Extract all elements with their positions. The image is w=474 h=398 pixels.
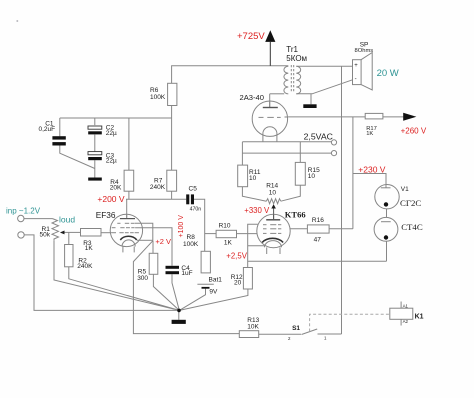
relay K1 pin A2 <box>400 319 402 325</box>
tube KT66 <box>257 214 290 254</box>
wire +2V diagonal to R13 branch <box>133 241 239 334</box>
wire R11 bottom to R14 <box>242 187 266 202</box>
potentiometer R14 wiper arrow <box>271 204 276 208</box>
wire +230V tap to V1 <box>353 174 386 188</box>
svg-text:1: 1 <box>324 336 327 341</box>
svg-text:+200 V: +200 V <box>97 194 125 204</box>
svg-text:1K: 1K <box>224 240 233 247</box>
resistor R13 <box>239 331 258 338</box>
svg-text:A2: A2 <box>403 319 409 324</box>
resistor R12 <box>243 268 252 290</box>
wire R1 wiper to R3 <box>65 231 81 233</box>
wire Bat1 bottom to star <box>179 289 205 311</box>
wire R7 bottom lead <box>171 191 173 199</box>
svg-text:+230 V: +230 V <box>358 165 386 175</box>
svg-text:KT66: KT66 <box>285 209 306 219</box>
svg-text:50k: 50k <box>40 231 51 238</box>
wire R17 to arrow <box>383 116 404 118</box>
wire S1 pin1 to right bus <box>318 333 342 335</box>
wire R15 top lead <box>299 142 301 163</box>
svg-text:C5: C5 <box>189 186 198 193</box>
wire 2.5VAC lower line <box>242 152 331 154</box>
resistor R4 <box>124 170 134 191</box>
svg-text:+330 V: +330 V <box>244 206 270 215</box>
resistor R16 <box>307 225 329 233</box>
2A3 plate <box>263 107 278 109</box>
wire 2A3 filament line <box>242 141 331 143</box>
input terminal upper <box>18 215 24 221</box>
svg-text:+2 V: +2 V <box>155 237 171 246</box>
svg-text:+2,5V: +2,5V <box>226 252 247 261</box>
svg-text:EF36: EF36 <box>96 210 116 220</box>
svg-text:1uF: 1uF <box>181 270 192 277</box>
ground bar below C3 <box>88 178 102 181</box>
KT66 grid rows <box>263 225 281 234</box>
wire R12 bottom to star <box>179 289 248 310</box>
svg-text:22µ: 22µ <box>106 157 117 164</box>
svg-text:+100 V: +100 V <box>178 215 185 238</box>
KT66 plate <box>266 219 280 221</box>
svg-text:10: 10 <box>249 175 257 182</box>
EF36 cathode <box>120 236 136 240</box>
wire R1 bottom to star <box>54 240 179 310</box>
svg-text:Tr1: Tr1 <box>286 45 298 54</box>
svg-text:1K: 1K <box>366 131 373 137</box>
relay K1 pin A1 <box>400 302 402 309</box>
EF36 grid rows <box>112 223 139 232</box>
wire secondary bottom to ground <box>310 94 312 105</box>
wire +725V rail top <box>172 66 289 84</box>
speck artifact <box>16 20 18 22</box>
wire C4 bottom to star <box>172 274 179 310</box>
svg-text:СТ4С: СТ4С <box>401 222 423 232</box>
wire EF36 g1 to R3 <box>101 232 112 234</box>
wire EF36 g3 +2V node <box>135 223 153 241</box>
svg-text:+725V: +725V <box>237 31 265 42</box>
svg-text:20K: 20K <box>110 185 122 192</box>
wire EF36 cathode to +2V node <box>137 239 153 241</box>
wire star to ground <box>178 310 180 319</box>
wire R4 bottom lead <box>128 191 130 199</box>
relay K1 coil <box>390 308 413 319</box>
wire input upper to R1 <box>24 218 53 220</box>
switch S1 blade <box>302 329 318 335</box>
svg-text:0,2uF: 0,2uF <box>39 126 56 133</box>
potentiometer R1 wiper arrow <box>60 231 65 235</box>
arrow +260V <box>403 113 416 121</box>
wire V1 to CT4C link <box>386 209 388 218</box>
wire R2 top lead <box>68 232 70 244</box>
wire screen bus x352 vertical <box>352 117 354 229</box>
wire CT4C bottom lead <box>386 241 388 261</box>
resistor R10 <box>216 230 236 237</box>
regulator tube CT4C <box>374 217 398 241</box>
wire C2-C3 link <box>94 135 96 152</box>
wire node +400 horizontal (C1/C2/R4 top rail) <box>60 117 172 119</box>
wire KT66 grid bus vertical <box>248 224 258 267</box>
resistor R2 <box>65 245 73 267</box>
transformer Tr1 primary winding <box>284 66 288 94</box>
wire R11 top lead <box>241 142 243 165</box>
svg-text:СГ2С: СГ2С <box>400 198 421 208</box>
2.5VAC terminal 1 <box>331 140 336 145</box>
capacitor C3 (electrolytic) <box>88 152 102 161</box>
wire R4 top lead <box>128 118 130 170</box>
wire R13 to S1 <box>259 333 301 335</box>
svg-text:240K: 240K <box>77 263 93 270</box>
svg-text:47: 47 <box>314 236 322 243</box>
wire R2 bottom to star <box>69 267 180 311</box>
capacitor C5 <box>186 194 194 204</box>
svg-text:20: 20 <box>234 280 242 287</box>
ground bar transformer secondary <box>303 104 316 108</box>
wire C1 top lead <box>59 118 61 136</box>
svg-text:-: - <box>355 77 357 83</box>
potentiometer R1 zigzag <box>52 219 59 241</box>
2A3 filament <box>263 127 277 134</box>
wire speaker minus diagonal <box>296 80 352 94</box>
svg-text:S1: S1 <box>292 325 300 332</box>
svg-text:10: 10 <box>308 173 316 180</box>
tube 2A3-40 <box>252 101 288 142</box>
wire R10 row (R8 node to KT66 grid) <box>205 233 216 235</box>
wire node +200V horizontal <box>126 198 186 200</box>
capacitor C1 <box>52 136 65 145</box>
resistor R17 <box>365 113 383 119</box>
wire EF36 g2 to C4 <box>135 228 172 266</box>
wire R14 wiper to KT66 plate <box>273 206 275 220</box>
svg-text:300: 300 <box>137 275 148 282</box>
wire secondary top to speaker <box>296 65 352 67</box>
resistor R11 <box>238 165 248 187</box>
speaker SP cone <box>361 53 372 90</box>
wire right bus vertical (speaker to S1) <box>341 66 343 334</box>
svg-text:10K: 10K <box>247 324 259 331</box>
wire R5 bottom to star <box>153 274 179 310</box>
wire C1 bottom lead <box>60 145 95 168</box>
2A3 grid dashes <box>259 116 289 118</box>
svg-text:1K: 1K <box>85 245 94 252</box>
battery Bat1 <box>197 284 213 288</box>
KT66 cathode <box>262 238 283 242</box>
input terminal lower <box>18 232 24 238</box>
svg-text:R10: R10 <box>219 223 231 230</box>
wire KT66 screen to R16 <box>290 228 307 230</box>
svg-text:2,5VAC: 2,5VAC <box>304 132 333 142</box>
svg-text:20 W: 20 W <box>377 68 399 79</box>
node star ground junction <box>177 309 181 313</box>
svg-text:5КОм: 5КОм <box>286 54 307 63</box>
resistor R7 <box>167 170 177 191</box>
ground bar main <box>172 320 186 324</box>
svg-text:100K: 100K <box>183 241 199 248</box>
tube EF36 <box>110 214 142 252</box>
svg-text:8Ohms: 8Ohms <box>355 48 374 54</box>
svg-text:100K: 100K <box>150 94 166 101</box>
svg-text:9V: 9V <box>209 289 218 296</box>
svg-text:240K: 240K <box>150 184 166 191</box>
capacitor C2 (electrolytic) <box>88 126 102 134</box>
svg-text:+: + <box>354 63 358 69</box>
svg-text:+260 V: +260 V <box>401 126 427 135</box>
svg-text:K1: K1 <box>415 314 424 321</box>
svg-text:22µ: 22µ <box>106 130 117 137</box>
wire +2V to R5 <box>152 241 154 254</box>
wire C2 top lead <box>94 118 96 125</box>
wire input lower to star <box>24 235 179 311</box>
transformer Tr1 secondary winding <box>296 66 300 94</box>
svg-text:Bat1: Bat1 <box>209 276 223 283</box>
wire R6 to R7 vertical <box>171 106 173 171</box>
resistor R3 <box>81 229 102 237</box>
svg-text:10: 10 <box>269 189 277 196</box>
EF36 plate <box>120 218 135 220</box>
capacitor C4 <box>166 266 180 274</box>
wire primary bottom <box>270 93 285 95</box>
resistor R8 <box>201 251 210 273</box>
wire R15 bottom to R14 <box>281 185 301 201</box>
2.5VAC terminal 2 <box>331 151 336 156</box>
svg-text:V1: V1 <box>401 186 409 193</box>
resistor R15 <box>295 162 305 185</box>
svg-text:2A3-40: 2A3-40 <box>240 93 265 102</box>
switch S1 link dashed <box>310 314 390 331</box>
potentiometer R14 zigzag <box>266 199 281 204</box>
svg-text:A1: A1 <box>403 304 409 309</box>
transformer Tr1 core <box>291 65 293 93</box>
svg-text:2: 2 <box>288 336 291 341</box>
wire R10 right to grid bus <box>237 233 258 235</box>
wire EF36 plate lead <box>126 199 128 217</box>
svg-text:loud: loud <box>59 214 75 224</box>
wire cathode bus to CT4C bottom <box>248 260 387 262</box>
resistor R6 <box>168 83 177 105</box>
wire +725V arrow stem <box>269 42 271 66</box>
arrow +725V <box>265 30 275 42</box>
speaker SP box <box>353 60 362 85</box>
wire 2A3 grid to R17 line <box>288 116 365 118</box>
wire 2A3 plate lead <box>269 94 271 108</box>
svg-text:470n: 470n <box>190 207 202 213</box>
wire C3 to ground <box>94 160 96 177</box>
regulator tube V1 CT2C <box>375 185 399 209</box>
wire KT66 cathode tap <box>248 245 265 247</box>
wire R16 to screen bus <box>329 228 353 230</box>
svg-text:R16: R16 <box>312 217 324 224</box>
svg-text:inp ~1.2V: inp ~1.2V <box>6 207 41 216</box>
resistor R5 <box>149 253 158 274</box>
wire C5 right to R8 <box>194 199 205 251</box>
